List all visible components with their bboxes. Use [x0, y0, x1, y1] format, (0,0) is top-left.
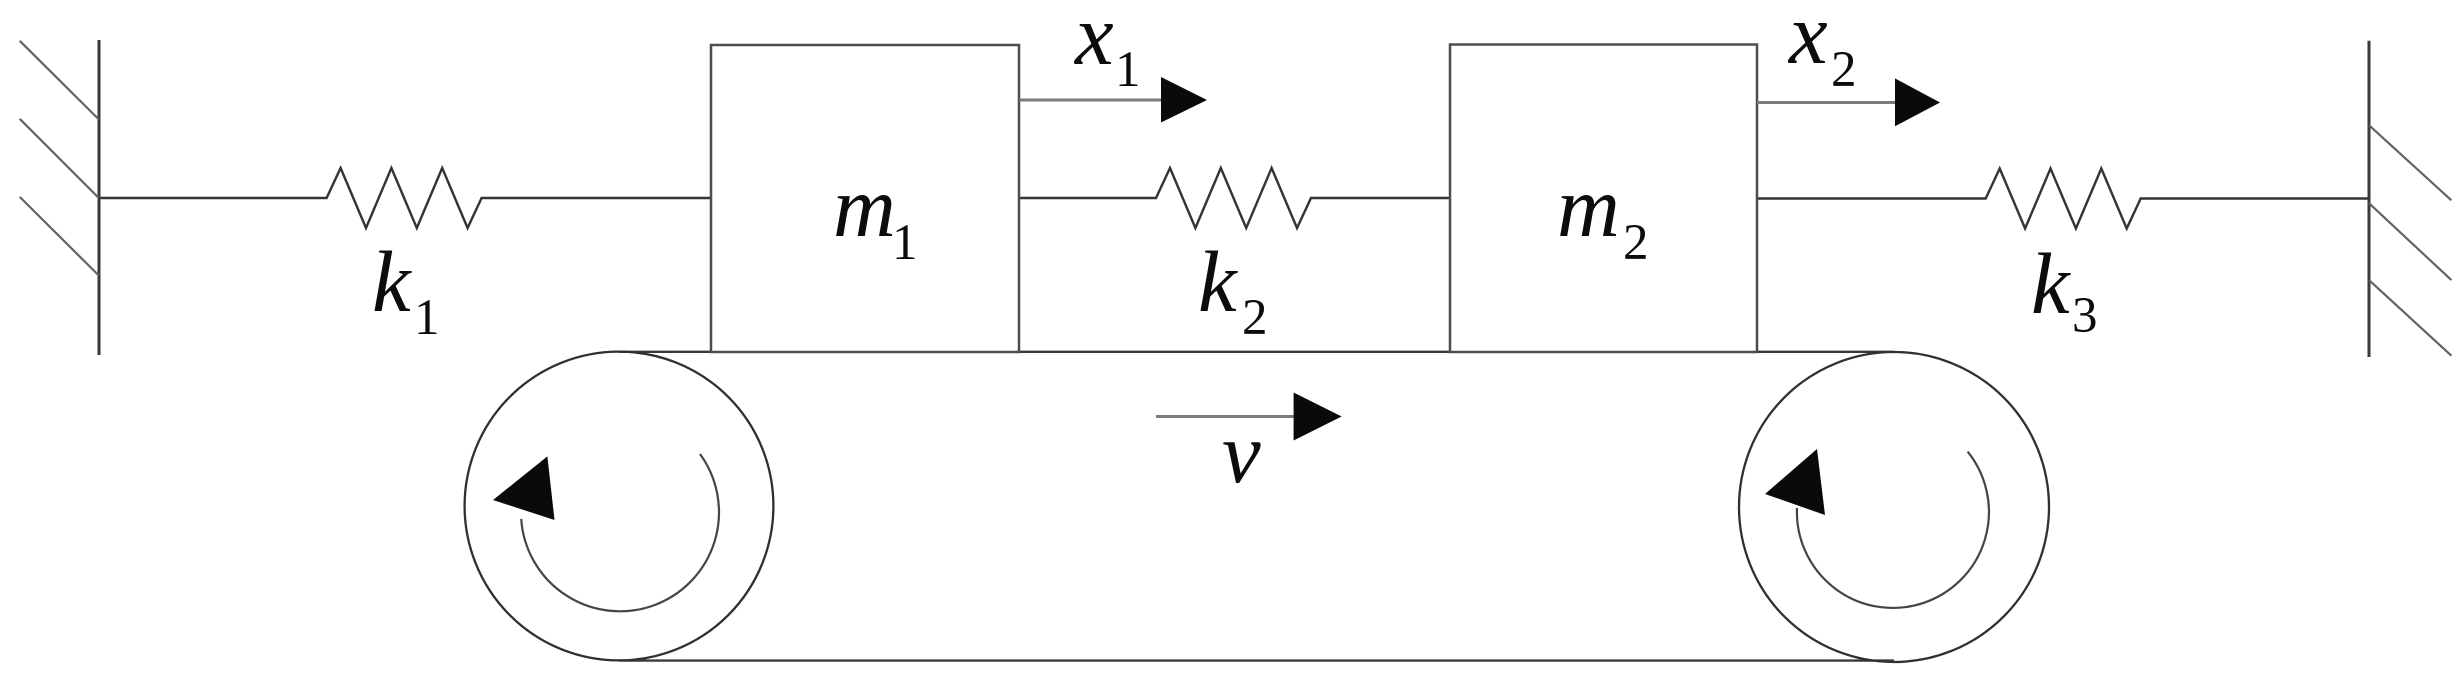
svg-text:2: 2 [1831, 42, 1857, 98]
svg-text:2: 2 [1242, 290, 1268, 346]
svg-text:3: 3 [2072, 288, 2098, 344]
svg-text:k: k [1198, 233, 1238, 330]
svg-text:1: 1 [1115, 42, 1141, 98]
svg-text:m: m [833, 158, 896, 255]
svg-text:v: v [1222, 404, 1261, 501]
svg-text:k: k [2031, 235, 2071, 332]
svg-text:1: 1 [414, 290, 440, 346]
svg-text:1: 1 [892, 215, 918, 271]
svg-text:x: x [1073, 0, 1114, 83]
svg-text:k: k [372, 233, 412, 330]
svg-text:m: m [1557, 158, 1620, 255]
svg-text:2: 2 [1623, 215, 1649, 271]
svg-text:x: x [1787, 0, 1828, 82]
